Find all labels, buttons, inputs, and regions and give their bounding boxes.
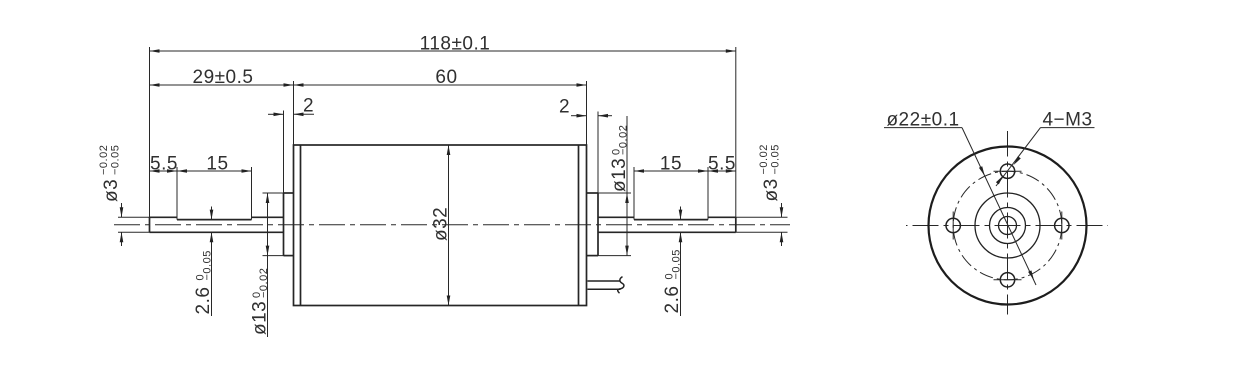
svg-text:−0.02: −0.02 — [98, 145, 110, 175]
dim ø13 left — [267, 193, 269, 337]
svg-text:2.6: 2.6 — [193, 287, 214, 315]
dim 5.5 right — [708, 170, 736, 172]
extension line right boss face — [597, 112, 599, 194]
right end cap line — [578, 145, 580, 306]
svg-text:29±0.5: 29±0.5 — [193, 67, 254, 88]
extension line left shaft tip — [149, 47, 151, 232]
svg-text:5.5: 5.5 — [150, 153, 178, 174]
svg-text:2: 2 — [559, 97, 570, 118]
tick through right hole — [1061, 212, 1063, 240]
dim ø13 right — [626, 116, 628, 256]
bearing circle — [990, 208, 1026, 244]
M3 hole left — [946, 218, 960, 232]
centerline shaft axis — [114, 224, 790, 226]
dim 2 left boss — [268, 113, 284, 115]
M3 hole bottom — [1000, 273, 1014, 287]
dim 15 left — [177, 170, 252, 172]
left end cap line — [300, 145, 302, 306]
outer circle ø32 face — [929, 147, 1087, 305]
svg-text:−0.05: −0.05 — [202, 250, 214, 280]
dim 29±0.5 — [150, 84, 294, 86]
shaft circle ø3 — [999, 217, 1017, 235]
extension lines left flat — [176, 167, 178, 220]
dim 2.6 right flat depth — [680, 207, 682, 220]
svg-text:−0.02: −0.02 — [258, 268, 270, 298]
svg-text:ø3: ø3 — [761, 178, 782, 201]
right bearing boss — [597, 193, 599, 256]
extension line body left face — [293, 81, 295, 145]
dim ø3 right — [781, 203, 783, 217]
dim 5.5 left — [150, 170, 178, 172]
dim 15 right — [634, 170, 708, 172]
left bearing boss — [283, 193, 285, 256]
svg-text:2.6: 2.6 — [662, 286, 683, 314]
dim 2.6 left flat depth — [211, 207, 213, 220]
svg-text:−0.05: −0.05 — [671, 249, 683, 279]
M3 hole top — [1000, 164, 1014, 178]
tick through bottom hole — [994, 279, 1022, 281]
svg-text:60: 60 — [435, 67, 457, 88]
svg-text:−0.05: −0.05 — [110, 145, 122, 175]
front view centerline horizontal — [906, 225, 1108, 227]
svg-text:ø3: ø3 — [101, 179, 122, 202]
extension line right shaft tip — [735, 47, 737, 232]
dim 118±0.1 — [150, 50, 736, 52]
extension line left boss face — [283, 111, 285, 194]
svg-text:118±0.1: 118±0.1 — [420, 33, 491, 54]
tick through top hole — [994, 170, 1022, 172]
svg-text:15: 15 — [660, 153, 682, 174]
left shaft with flat — [150, 216, 178, 218]
dim 2 right boss — [571, 115, 587, 117]
tick through left hole — [952, 212, 954, 240]
lead wire — [588, 280, 621, 282]
svg-text:−0.02: −0.02 — [618, 125, 630, 155]
right shaft with flat — [598, 216, 634, 218]
boss circle ø13 — [975, 193, 1040, 258]
extension lines right flat — [633, 167, 635, 220]
dim ø32 body — [448, 145, 450, 306]
svg-text:ø13: ø13 — [250, 301, 271, 335]
dim 60 — [294, 84, 587, 86]
svg-text:ø32: ø32 — [431, 207, 452, 241]
svg-text:15: 15 — [206, 153, 228, 174]
svg-text:5.5: 5.5 — [708, 153, 736, 174]
extension line body right face — [586, 81, 588, 145]
motor body outline — [294, 145, 587, 306]
svg-text:ø13: ø13 — [609, 158, 630, 192]
dim ø3 left — [121, 203, 123, 217]
svg-text:−0.02: −0.02 — [758, 144, 770, 174]
svg-text:−0.05: −0.05 — [770, 144, 782, 174]
front view centerline vertical — [1007, 131, 1009, 315]
bolt circle ø22 dash-dot — [953, 171, 1062, 280]
svg-text:2: 2 — [303, 95, 314, 116]
M3 hole right — [1055, 218, 1069, 232]
